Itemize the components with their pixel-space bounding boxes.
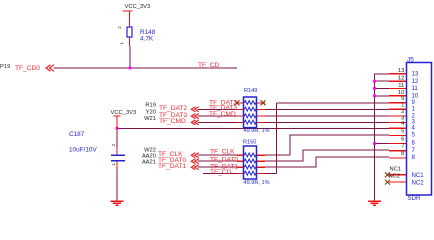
svg-text:C187: C187 — [69, 131, 85, 138]
svg-text:8: 8 — [401, 151, 404, 157]
svg-text:13: 13 — [398, 68, 404, 74]
svg-text:1: 1 — [111, 163, 116, 166]
svg-text:7: 7 — [401, 144, 404, 150]
svg-text:13: 13 — [412, 71, 419, 78]
svg-text:6: 6 — [401, 137, 404, 143]
svg-text:P19: P19 — [0, 64, 10, 70]
svg-text:R149: R149 — [244, 88, 257, 94]
svg-text:1: 1 — [119, 42, 124, 45]
svg-text:NC2: NC2 — [389, 174, 401, 180]
svg-text:11: 11 — [398, 83, 404, 89]
svg-text:2: 2 — [401, 109, 404, 115]
svg-text:2: 2 — [117, 26, 122, 29]
svg-text:R19: R19 — [145, 103, 156, 109]
svg-text:NC1: NC1 — [390, 166, 402, 172]
svg-text:AA21: AA21 — [142, 160, 156, 166]
svg-text:TF_CLK: TF_CLK — [210, 149, 235, 156]
svg-text:Y20: Y20 — [146, 109, 156, 115]
svg-text:TF_CMD: TF_CMD — [159, 118, 186, 125]
svg-text:TF_CMD: TF_CMD — [209, 111, 236, 118]
svg-text:49.9R, 1%: 49.9R, 1% — [244, 180, 270, 186]
svg-text:10uF/10V: 10uF/10V — [69, 147, 97, 154]
svg-text:5: 5 — [401, 128, 404, 134]
svg-text:TF_CD: TF_CD — [210, 169, 231, 176]
svg-text:TF_DAT1: TF_DAT1 — [158, 163, 186, 170]
svg-text:VCC_3V3: VCC_3V3 — [111, 110, 137, 116]
svg-text:W21: W21 — [144, 116, 156, 122]
svg-text:J5: J5 — [407, 57, 414, 64]
svg-text:R150: R150 — [243, 140, 256, 146]
svg-text:9: 9 — [401, 96, 404, 102]
svg-text:12: 12 — [398, 76, 404, 82]
svg-text:SDR: SDR — [408, 195, 421, 202]
svg-text:49.9R, 1%: 49.9R, 1% — [244, 128, 270, 134]
svg-text:VCC_3V3: VCC_3V3 — [125, 4, 151, 10]
svg-text:2: 2 — [111, 143, 116, 146]
svg-text:11: 11 — [412, 85, 419, 92]
svg-text:NC1: NC1 — [412, 172, 425, 179]
svg-text:4.7K: 4.7K — [140, 36, 154, 43]
svg-text:TF_CD0: TF_CD0 — [15, 65, 40, 72]
svg-text:NC2: NC2 — [412, 180, 425, 187]
svg-text:1: 1 — [401, 102, 404, 108]
svg-text:TF_CD: TF_CD — [198, 62, 219, 69]
svg-text:12: 12 — [412, 78, 419, 85]
